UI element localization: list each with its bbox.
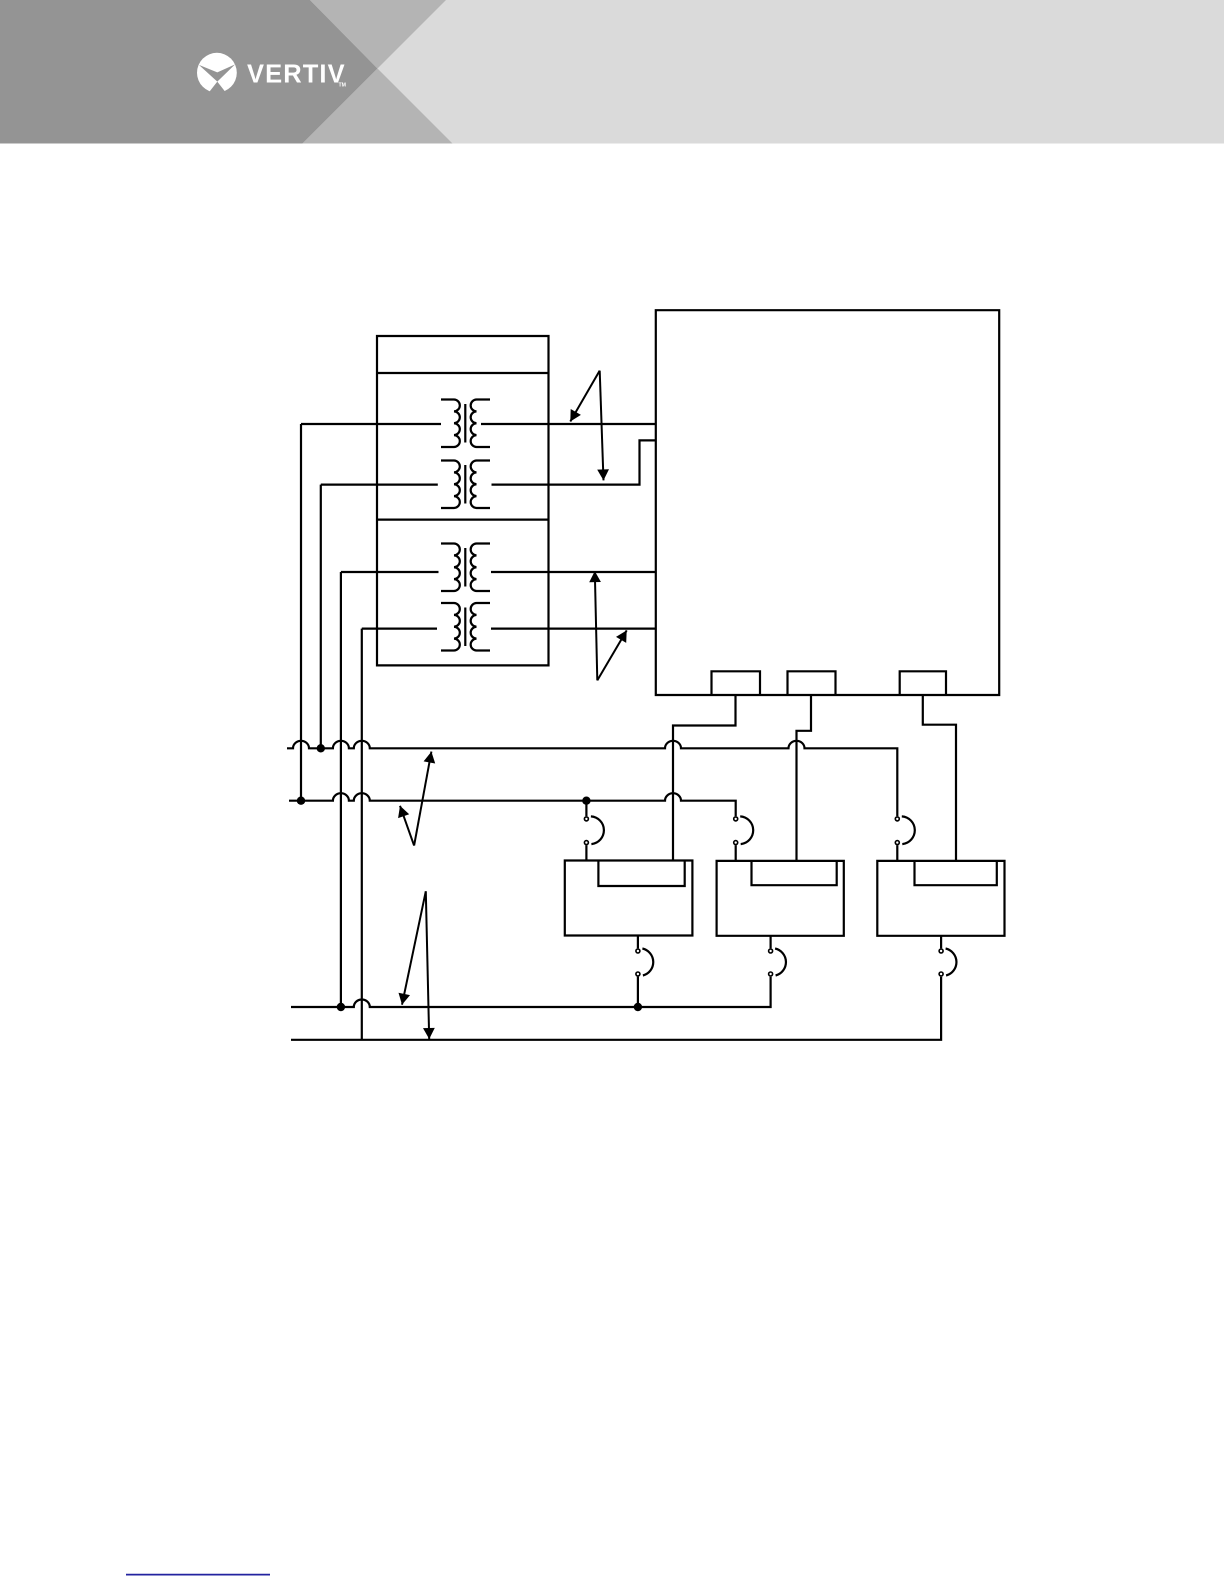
svg-text:TM: TM	[339, 82, 347, 88]
svg-text:VERTIV: VERTIV	[247, 60, 346, 88]
